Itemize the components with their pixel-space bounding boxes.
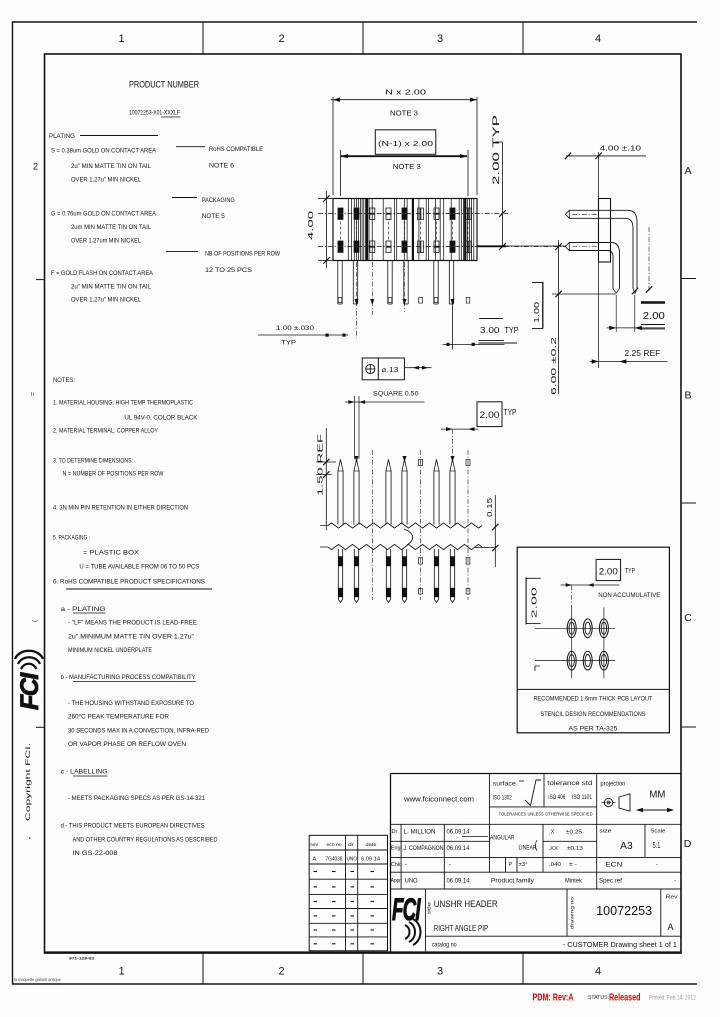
svg-text:-: - — [674, 879, 676, 885]
svg-text:projection: projection — [600, 782, 625, 788]
pcb hole pattern — [535, 627, 615, 629]
svg-text:NOTE 5: NOTE 5 — [202, 213, 225, 220]
svg-text:1.50 REF: 1.50 REF — [316, 433, 325, 496]
svg-text:10072253-X01-XXXLF: 10072253-X01-XXXLF — [129, 110, 180, 117]
svg-text:±0.25: ±0.25 — [566, 830, 582, 836]
svg-text:size: size — [599, 829, 611, 835]
svg-text:TYP: TYP — [504, 408, 517, 417]
svg-text:NB OF POSITIONS PER ROW: NB OF POSITIONS PER ROW — [205, 251, 281, 258]
svg-text:A: A — [684, 165, 691, 177]
svg-text:Product family: Product family — [491, 879, 534, 885]
svg-text:G = 0.76um GOLD ON CONTACT ARE: G = 0.76um GOLD ON CONTACT AREA — [51, 211, 157, 218]
front view row centerlines — [318, 213, 508, 215]
FCI logo left margin rotated — [15, 651, 44, 710]
svg-text:AS PER TA-325: AS PER TA-325 — [569, 726, 618, 733]
middle view hidden position centerlines — [371, 450, 373, 600]
right zone ticks — [681, 278, 696, 280]
svg-text:surface: surface — [493, 782, 517, 788]
svg-text:PDM: Rev:A: PDM: Rev:A — [533, 992, 574, 1004]
svg-text:- CUSTOMER Drawing sheet 1 of: - CUSTOMER Drawing sheet 1 of 1 — [563, 942, 677, 949]
svg-text:.040: .040 — [549, 862, 561, 868]
svg-text:3.00: 3.00 — [480, 326, 500, 335]
svg-text:NOTE 3: NOTE 3 — [393, 162, 421, 171]
FCI logo title block — [392, 894, 421, 945]
callout packaging — [172, 197, 197, 199]
svg-text:tolerance std: tolerance std — [547, 781, 592, 787]
svg-text:ecn no: ecn no — [327, 843, 342, 848]
svg-text:Eng: Eng — [391, 846, 401, 852]
svg-text:-: - — [405, 862, 407, 868]
dimension 1.00 bracket — [542, 282, 544, 329]
svg-text:catalog no: catalog no — [432, 943, 458, 949]
svg-text:la maquette gabarit antique: la maquette gabarit antique — [14, 977, 62, 982]
svg-text:A: A — [668, 922, 674, 932]
svg-text:UNO: UNO — [347, 857, 358, 863]
svg-text:5:1: 5:1 — [653, 841, 661, 850]
svg-text:2.00: 2.00 — [480, 410, 500, 420]
svg-text:d - THIS PRODUCT MEETS EUROPEA: d - THIS PRODUCT MEETS EUROPEAN DIRECTIV… — [61, 823, 205, 830]
title block outline — [391, 773, 682, 775]
svg-text:06.09.14: 06.09.14 — [447, 846, 471, 852]
svg-text:NOTE 6: NOTE 6 — [209, 163, 234, 170]
svg-text:1: 1 — [118, 33, 124, 45]
dimension 4.00 left of front view — [318, 198, 333, 200]
svg-text:- "LF" MEANS THE PRODUCT IS LE: - "LF" MEANS THE PRODUCT IS LEAD-FREE — [68, 620, 197, 627]
dimension 2.00 TYP boxed middle view — [477, 402, 502, 427]
bottom zone ticks — [202, 953, 204, 984]
svg-text:drawing no: drawing no — [570, 896, 575, 929]
svg-text:OVER 1.27u" MIN NICKEL: OVER 1.27u" MIN NICKEL — [71, 297, 141, 304]
svg-text:4.00 ±.10: 4.00 ±.10 — [600, 144, 642, 153]
middle view body break lines — [320, 523, 482, 528]
svg-text:Copyright FCI.: Copyright FCI. — [25, 743, 32, 821]
revision empty rows dashes — [314, 871, 318, 873]
svg-text:ISO 406: ISO 406 — [548, 795, 566, 801]
svg-text:NOTE 3: NOTE 3 — [390, 109, 418, 118]
svg-text:.X: .X — [549, 830, 555, 836]
svg-text:Scale: Scale — [650, 829, 665, 835]
svg-text:260°C PEAK TEMPERATURE FOR: 260°C PEAK TEMPERATURE FOR — [68, 713, 169, 721]
surface finish symbol — [525, 780, 541, 806]
svg-text:Rev: Rev — [666, 895, 678, 901]
svg-text:A3: A3 — [620, 841, 633, 852]
svg-text:2u" MIN MATTE TIN ON TAIL: 2u" MIN MATTE TIN ON TAIL — [71, 163, 151, 170]
svg-text:2u" MINIMUM MATTE TIN OVER 1.2: 2u" MINIMUM MATTE TIN OVER 1.27u" — [68, 634, 194, 641]
svg-text:N = NUMBER OF POSITIONS PER RO: N = NUMBER OF POSITIONS PER ROW — [63, 471, 165, 478]
svg-text:6.09.14: 6.09.14 — [361, 857, 380, 863]
svg-text:971-128-63: 971-128-63 — [69, 956, 95, 961]
svg-text:=: = — [30, 392, 37, 396]
svg-text:-: - — [656, 863, 658, 869]
position tolerance feature frame — [362, 358, 404, 380]
svg-text:rev: rev — [310, 842, 319, 848]
svg-text:SQUARE 0.50: SQUARE 0.50 — [373, 391, 419, 398]
left zone ticks — [36, 279, 45, 281]
svg-text:title: title — [427, 901, 432, 914]
svg-text:PLATING: PLATING — [49, 133, 75, 140]
title block vertical lines — [488, 774, 490, 873]
svg-text:2: 2 — [33, 162, 38, 172]
svg-text:D: D — [684, 838, 692, 850]
svg-text:Released: Released — [609, 992, 641, 1004]
svg-text:TYP: TYP — [281, 340, 297, 347]
revision history table — [309, 835, 387, 951]
svg-text:4: 4 — [595, 33, 601, 45]
svg-text:b - MANUFACTURING PROCESS COMP: b - MANUFACTURING PROCESS COMPATIBILITY — [61, 674, 197, 681]
svg-text:PRODUCT NUMBER: PRODUCT NUMBER — [129, 80, 199, 90]
svg-text:OVER 1.27um MIN NICKEL: OVER 1.27um MIN NICKEL — [71, 238, 141, 245]
svg-text:MINIMUM NICKEL UNDERPLATE: MINIMUM NICKEL UNDERPLATE — [68, 647, 152, 654]
svg-text:N x 2.00: N x 2.00 — [385, 88, 426, 97]
svg-text:STENCIL DESIGN RECOMMENDATIONS: STENCIL DESIGN RECOMMENDATIONS — [541, 711, 647, 718]
svg-text:dr: dr — [348, 842, 355, 848]
svg-text:- MEETS PACKAGING SPECS AS PER: - MEETS PACKAGING SPECS AS PER GS-14-321 — [68, 795, 205, 802]
svg-text:.XX: .XX — [549, 846, 558, 852]
dimension 3.00 TYP — [479, 318, 503, 320]
svg-text:4.00: 4.00 — [306, 211, 315, 240]
svg-text:±0.13: ±0.13 — [567, 846, 583, 852]
svg-text:RoHS COMPATIBLE: RoHS COMPATIBLE — [209, 146, 263, 153]
svg-text:UNSHR HEADER: UNSHR HEADER — [434, 898, 498, 909]
first angle projection symbol — [604, 798, 612, 806]
svg-text:ECN: ECN — [605, 863, 622, 869]
svg-text:(: ( — [33, 620, 39, 622]
front view tail end arrows — [355, 299, 359, 305]
svg-text:2. MATERIAL TERMINAL: COPPER A: 2. MATERIAL TERMINAL: COPPER ALLOY — [53, 428, 159, 435]
title block horizontal lines — [489, 806, 596, 808]
svg-text:RECOMMENDED 1.6mm THICK PCB LA: RECOMMENDED 1.6mm THICK PCB LAYOUT — [534, 696, 653, 703]
svg-text:TYP: TYP — [625, 566, 635, 575]
front view tail centerlines — [356, 262, 358, 338]
svg-text:NON ACCUMULATIVE: NON ACCUMULATIVE — [598, 592, 660, 599]
svg-text:Chk: Chk — [391, 862, 401, 868]
front view pin tails — [337, 261, 339, 305]
pcb dimension 2.00 bracket — [525, 577, 527, 624]
side view lower pin — [569, 243, 620, 289]
svg-text:AND OTHER COUNTRY REGULATIONS: AND OTHER COUNTRY REGULATIONS AS DESCRIB… — [73, 837, 218, 844]
middle view solder tails — [337, 549, 339, 599]
svg-text:Spec ref: Spec ref — [599, 879, 622, 885]
svg-text:10072253: 10072253 — [596, 904, 652, 918]
inner drawing frame — [45, 54, 682, 953]
svg-text:2.00: 2.00 — [643, 311, 665, 322]
svg-text:Dr: Dr — [392, 829, 398, 835]
svg-text:J. COMPAGNON: J. COMPAGNON — [404, 846, 444, 852]
svg-text:P: P — [509, 862, 513, 868]
svg-text:OVER 1.27u" MIN NICKEL: OVER 1.27u" MIN NICKEL — [71, 177, 141, 184]
svg-text:1: 1 — [118, 966, 124, 978]
svg-text:C: C — [684, 612, 692, 624]
svg-text:2.00 TYP: 2.00 TYP — [491, 115, 502, 185]
svg-text:a - PLATING: a - PLATING — [61, 606, 106, 613]
svg-text:L. MILLION: L. MILLION — [404, 830, 436, 836]
svg-text:7G4038: 7G4038 — [326, 857, 343, 863]
svg-text:3: 3 — [437, 33, 443, 45]
svg-text:06.09.14: 06.09.14 — [447, 830, 471, 836]
svg-text:B: B — [684, 390, 691, 402]
dimension 0.15 — [494, 495, 496, 567]
svg-text:12 TO 25 PCS: 12 TO 25 PCS — [205, 267, 252, 274]
svg-text:06.09.14: 06.09.14 — [447, 879, 471, 885]
svg-text:www.fciconnect.com: www.fciconnect.com — [403, 795, 474, 804]
front view pin pads — [338, 208, 343, 213]
pcb dimension 2.00 TYP boxed — [596, 559, 621, 580]
svg-text:NOTES:: NOTES: — [53, 377, 75, 384]
svg-text:ISO 1101: ISO 1101 — [572, 795, 593, 801]
svg-text:ISO 1302: ISO 1302 — [493, 796, 512, 802]
dimension 2.00 boxed side view — [641, 301, 665, 303]
svg-text:- THE HOUSING WITHSTAND EXPOSU: - THE HOUSING WITHSTAND EXPOSURE TO — [68, 700, 194, 707]
svg-text:30 SECONDS MAX IN A CONVECTION: 30 SECONDS MAX IN A CONVECTION, INFRA-RE… — [68, 728, 209, 735]
svg-text:(N-1) x 2.00: (N-1) x 2.00 — [378, 139, 433, 148]
svg-text:= PLASTIC BOX: = PLASTIC BOX — [83, 550, 140, 557]
svg-text:0.15: 0.15 — [487, 498, 494, 517]
break S-curve — [404, 529, 413, 545]
svg-text:±3°: ±3° — [519, 862, 528, 868]
svg-text:MM: MM — [649, 789, 665, 801]
callout positions — [166, 250, 198, 252]
svg-text:Appr: Appr — [391, 878, 401, 884]
svg-text:-: - — [449, 862, 451, 868]
callout RoHS — [176, 146, 205, 148]
svg-text:LINEAR: LINEAR — [519, 846, 538, 852]
side view body face extension line — [598, 152, 600, 368]
svg-text:ANGULAR: ANGULAR — [490, 836, 515, 842]
svg-text:RIGHT ANGLE PIP: RIGHT ANGLE PIP — [434, 923, 489, 933]
svg-text:1. MATERIAL HOUSING: HIGH TEMP: 1. MATERIAL HOUSING: HIGH TEMP THERMOPLA… — [53, 400, 193, 407]
side view tail centerline — [648, 227, 650, 291]
svg-text:TOLERANCES UNLESS OTHERWISE SP: TOLERANCES UNLESS OTHERWISE SPECIFIED — [499, 812, 594, 817]
dimension 2.00 TYP right of front view — [502, 142, 504, 247]
svg-text:c - LABELLING: c - LABELLING — [61, 769, 108, 776]
dimension 1.50 REF — [325, 428, 327, 530]
svg-text:2um MIN MATTE TIN ON TAIL: 2um MIN MATTE TIN ON TAIL — [71, 224, 151, 231]
svg-text:UNO: UNO — [405, 879, 418, 885]
svg-text:STATUS:: STATUS: — [588, 995, 609, 1001]
svg-text:4: 4 — [595, 966, 601, 978]
svg-text:3: 3 — [437, 966, 443, 978]
front view dimension N x 2.00 — [332, 97, 334, 195]
svg-text:2.00: 2.00 — [599, 567, 618, 577]
svg-text:FCI: FCI — [16, 672, 44, 710]
svg-text:5. PACKAGING :: 5. PACKAGING : — [53, 535, 90, 542]
side view upper pin — [569, 210, 637, 288]
front view tail end tips — [338, 298, 342, 303]
svg-text:± -: ± - — [569, 862, 577, 868]
svg-text:S = 0.38um GOLD ON CONTACT ARE: S = 0.38um GOLD ON CONTACT AREA — [51, 148, 157, 155]
svg-text:2.25 REF: 2.25 REF — [624, 349, 660, 358]
svg-text:IN GS-22-008: IN GS-22-008 — [73, 850, 118, 857]
svg-text:2.00: 2.00 — [530, 587, 539, 618]
svg-text:1.00: 1.00 — [532, 302, 541, 323]
svg-text:3. TO DETERMINE DIMENSIONS:: 3. TO DETERMINE DIMENSIONS: — [53, 458, 133, 465]
recommended PCB layout box — [517, 547, 669, 733]
middle view hidden tail pads — [419, 558, 423, 565]
svg-text:TYP: TYP — [505, 326, 519, 335]
svg-text:6.00 ±0.2: 6.00 ±0.2 — [549, 337, 558, 395]
front view housing body — [333, 199, 477, 261]
svg-text:2: 2 — [278, 966, 284, 978]
svg-text:F = GOLD FLASH ON CONTACT AREA: F = GOLD FLASH ON CONTACT AREA — [51, 270, 154, 277]
front view body internal lines — [347, 199, 349, 261]
svg-text:U = TUBE AVAILABLE FROM 06 TO: U = TUBE AVAILABLE FROM 06 TO 50 PCS — [79, 564, 199, 571]
svg-text:PACKAGING: PACKAGING — [202, 197, 235, 204]
svg-text:UL 94V-0, COLOR BLACK: UL 94V-0, COLOR BLACK — [124, 415, 198, 422]
svg-text:6. RoHS COMPATIBLE PRODUCT SPE: 6. RoHS COMPATIBLE PRODUCT SPECIFICATION… — [53, 579, 205, 586]
side view housing body — [599, 199, 611, 263]
middle view pins — [338, 460, 343, 525]
svg-text:1.00 ±.030: 1.00 ±.030 — [276, 325, 314, 332]
top zone ticks — [202, 22, 204, 54]
front view dimension (N-1) x 2.00 boxed — [340, 150, 342, 196]
dimension 6.00 +-0.2 — [558, 240, 560, 394]
svg-text:2u" MIN MATTE TIN ON TAIL: 2u" MIN MATTE TIN ON TAIL — [71, 284, 151, 291]
svg-text:4. 3N MIN PIN RETENTION IN EIT: 4. 3N MIN PIN RETENTION IN EITHER DIRECT… — [53, 505, 188, 512]
svg-text:date: date — [366, 842, 377, 848]
svg-text:2: 2 — [278, 33, 284, 45]
svg-text:Mintek: Mintek — [565, 879, 583, 885]
svg-text:⌀.13: ⌀.13 — [382, 365, 399, 374]
svg-text:A: A — [313, 857, 317, 863]
svg-text:OR VAPOR PHASE OR REFLOW OVEN: OR VAPOR PHASE OR REFLOW OVEN — [68, 741, 186, 748]
svg-text:Printed: Feb 14, 2012: Printed: Feb 14, 2012 — [649, 996, 697, 1002]
